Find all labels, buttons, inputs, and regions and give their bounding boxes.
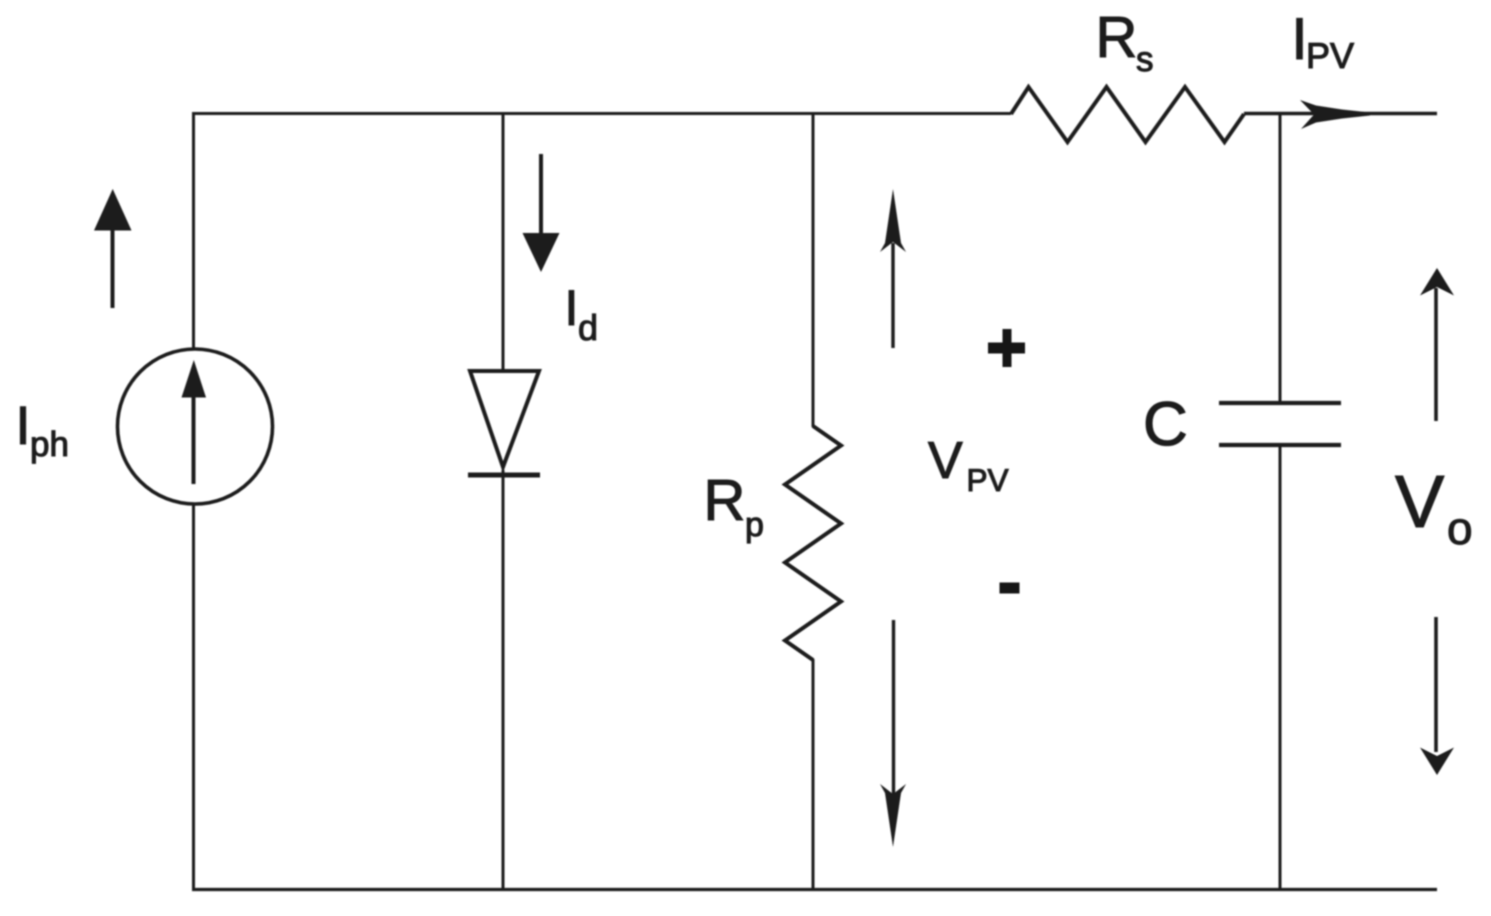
VPV down arrowhead [880, 784, 906, 847]
VPV up arrow shaft [891, 243, 894, 348]
label Iph [20, 407, 66, 463]
Iph direction arrowhead [94, 189, 132, 231]
wire top bus right segment [1244, 112, 1437, 115]
label IPV [1297, 18, 1354, 68]
VPV up arrowhead [880, 189, 906, 252]
wire capacitor branch lower [1279, 445, 1282, 890]
wire bottom bus [192, 888, 1437, 891]
label Rs [1100, 17, 1152, 71]
Vo up arrowhead [1420, 268, 1454, 296]
IPV arrowhead on top bus [1300, 100, 1370, 129]
current source arrow shaft [192, 396, 196, 484]
Id arrowhead [523, 233, 560, 272]
Iph direction arrow shaft [111, 230, 115, 308]
diode D cathode bar [468, 473, 540, 478]
wire Rp branch lower [812, 659, 815, 890]
current source arrowhead [182, 360, 207, 398]
Vo up arrow shaft [1434, 288, 1438, 421]
wire left branch lower [192, 504, 195, 890]
label Rp [708, 480, 762, 543]
capacitor C bottom plate [1219, 443, 1341, 447]
wire top bus left segment [192, 112, 1011, 115]
resistor Rp zigzag [785, 426, 841, 660]
wire diode branch upper [502, 112, 505, 372]
label VPV [928, 442, 1008, 491]
current source Iph circle [118, 349, 273, 504]
Vo down arrow shaft [1434, 617, 1438, 752]
capacitor C top plate [1219, 401, 1341, 405]
Id arrow shaft [539, 154, 543, 235]
wire left branch upper [192, 112, 195, 349]
VPV down arrow shaft [892, 620, 895, 795]
label Vo [1395, 476, 1470, 544]
diode D triangle [470, 371, 539, 467]
plus sign [988, 329, 1025, 367]
label C [1146, 402, 1185, 446]
wire diode branch lower [502, 470, 505, 890]
wire capacitor branch upper [1279, 112, 1282, 403]
resistor Rs zigzag [1011, 87, 1244, 142]
minus sign [1000, 583, 1020, 594]
wire Rp branch upper [812, 112, 815, 427]
Vo down arrowhead [1420, 748, 1454, 776]
label Id [569, 291, 596, 341]
